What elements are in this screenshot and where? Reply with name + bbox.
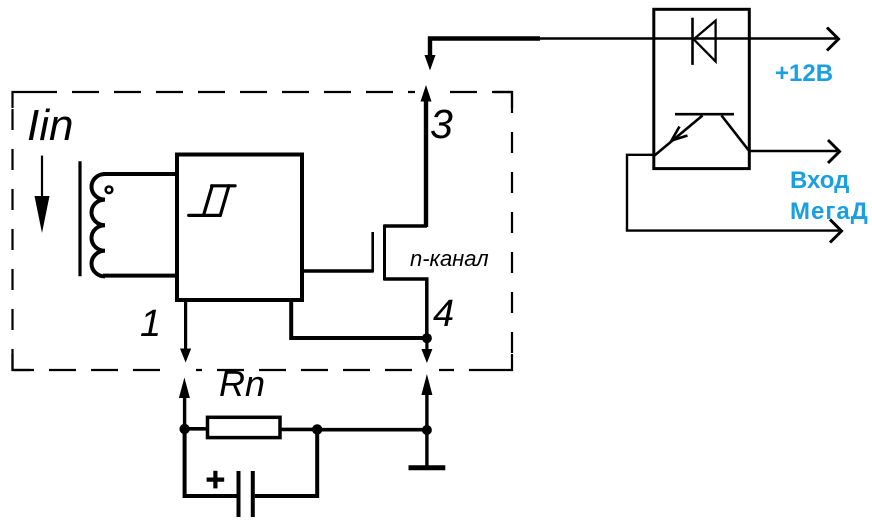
wire mid junction to ground node bbox=[317, 428, 427, 432]
wire +12V line through optocoupler diode bbox=[538, 37, 836, 39]
svg-text:Iin: Iin bbox=[27, 101, 73, 150]
svg-text:4: 4 bbox=[433, 293, 454, 335]
left junction dot bbox=[179, 424, 189, 434]
phototransistor base bar bbox=[675, 113, 734, 116]
transformer winding L1 bbox=[92, 174, 105, 276]
arrow node 1 down at boundary bbox=[180, 349, 191, 363]
wire comparator to node 4 bbox=[291, 300, 427, 338]
ground junction dot bbox=[422, 425, 432, 435]
battery loop right wire bbox=[255, 429, 317, 496]
wire coil top to comparator bbox=[103, 172, 177, 176]
MOSFET gate bar bbox=[371, 232, 374, 273]
phototransistor emitter with arrow bbox=[655, 116, 703, 156]
arrow MegaD right bbox=[830, 220, 842, 243]
node 4 junction dot bbox=[422, 333, 432, 343]
phototransistor collector bbox=[722, 116, 749, 151]
arrow Iin current direction bbox=[35, 156, 50, 233]
svg-text:Вход: Вход bbox=[790, 167, 849, 194]
winding polarity dot bbox=[106, 187, 113, 194]
dashed sensor module boundary box bbox=[13, 92, 513, 370]
svg-text:+12В: +12В bbox=[775, 60, 833, 87]
MOSFET channel bar bbox=[383, 225, 386, 281]
external wire from node 3 to +12V diode bbox=[430, 39, 540, 57]
wire emitter return to MegaD arrow bbox=[627, 155, 839, 231]
node 3 wire (drain up to boundary) bbox=[424, 100, 428, 227]
battery loop left wire bbox=[185, 429, 237, 496]
transformer core bar bbox=[78, 161, 81, 276]
ground bar bbox=[409, 465, 446, 470]
wire comparator output to MOSFET gate bbox=[302, 269, 373, 273]
resistor Rn body bbox=[208, 417, 281, 437]
wire resistor to mid junction bbox=[280, 428, 317, 432]
node 1 wire down from comparator bbox=[184, 300, 187, 352]
MOSFET drain lead bbox=[384, 224, 427, 228]
optocoupler diode triangle bbox=[694, 21, 716, 62]
battery plus sign bbox=[207, 471, 225, 489]
wire left junction to resistor bbox=[185, 427, 208, 431]
arrow node 4 down at boundary bbox=[421, 338, 432, 363]
Schmitt trigger comparator U1 box bbox=[177, 155, 302, 301]
svg-text:n-канал: n-канал bbox=[410, 246, 489, 271]
wire coil bottom to comparator bbox=[103, 274, 177, 278]
arrow Vhod right bbox=[828, 140, 840, 163]
arrow into node 4 from below boundary bbox=[421, 374, 432, 430]
wire collector to Vhod arrow bbox=[749, 150, 837, 152]
svg-text:1: 1 bbox=[140, 303, 161, 345]
hysteresis symbol bbox=[189, 186, 235, 216]
arrow node 3 up at boundary bbox=[421, 85, 432, 102]
battery positive plate bbox=[237, 471, 241, 517]
svg-text:3: 3 bbox=[430, 101, 453, 147]
svg-text:Rn: Rn bbox=[219, 363, 265, 404]
battery negative plate bbox=[251, 471, 255, 517]
arrow into node 1 from below boundary bbox=[179, 378, 190, 430]
optocoupler diode cathode bar bbox=[691, 18, 694, 65]
optocoupler U2 box bbox=[654, 9, 750, 168]
arrow down to node 3 bbox=[425, 55, 436, 71]
mid junction dot bbox=[312, 424, 322, 434]
arrow +12V right bbox=[827, 28, 839, 51]
white gaps in dashed border at node crossings bbox=[175, 89, 439, 374]
ground lead bbox=[425, 430, 428, 468]
MOSFET source lead bbox=[384, 279, 427, 338]
